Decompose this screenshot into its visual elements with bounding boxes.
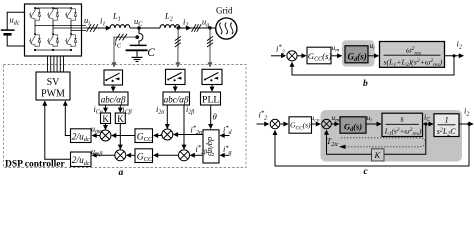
svg-text:iC: iC <box>115 38 122 50</box>
sampler S1 <box>104 70 123 85</box>
svg-text:s2L2C: s2L2C <box>437 127 456 138</box>
feedback wire (b) <box>292 56 454 75</box>
wire 2/udc1 to svpwm <box>65 102 70 136</box>
svg-text:ug: ug <box>202 17 209 29</box>
outer feedback (c) <box>275 124 469 166</box>
Gcc block a2 <box>135 149 153 163</box>
Gcc(s) block c <box>289 117 312 133</box>
svg-text:C: C <box>147 47 155 59</box>
sum junction 2c <box>322 119 332 129</box>
wire: inverter output ui <box>86 27 110 29</box>
sum junction 1c <box>270 119 280 129</box>
svg-text:i2: i2 <box>464 106 469 118</box>
svg-text:L2: L2 <box>164 11 173 23</box>
inductor L1 <box>110 25 130 28</box>
gain K2 <box>115 113 125 124</box>
svg-text:dq/αβ: dq/αβ <box>206 137 215 157</box>
svg-text:PLL: PLL <box>202 95 219 106</box>
K feedback solid (c) <box>384 124 426 154</box>
svg-text:i*2α: i*2α <box>191 125 204 137</box>
abc/ab block 1 <box>99 92 128 105</box>
svg-text:Gd(s): Gd(s) <box>348 51 367 63</box>
ground <box>132 57 143 61</box>
svg-text:i*2: i*2 <box>259 110 268 122</box>
svg-text:a: a <box>119 168 124 175</box>
transistor Q2 <box>29 33 41 47</box>
svg-text:i2: i2 <box>457 39 462 51</box>
wire sampler1 to abc1 <box>112 85 114 91</box>
sampler S3 <box>202 69 222 84</box>
inductor L2 <box>160 25 180 28</box>
dotted transform path (c) <box>341 138 426 147</box>
sum junction 4a <box>179 150 190 161</box>
i2 measurement tap <box>177 28 179 67</box>
svg-text:b: b <box>363 79 368 89</box>
svg-text:ui: ui <box>84 15 90 27</box>
wire K to sum2c <box>327 131 372 155</box>
svg-text:abc/αβ: abc/αβ <box>101 94 126 104</box>
svg-text:c: c <box>364 167 369 175</box>
svg-text:abc/αβ: abc/αβ <box>164 94 189 104</box>
svg-text:K: K <box>117 114 124 124</box>
gate signal wires <box>48 56 64 72</box>
wire Gcc2 to sum2a <box>127 154 135 156</box>
transistor Q1 <box>29 7 41 21</box>
svg-text:K: K <box>102 114 109 124</box>
abc/ab block 2 <box>163 92 190 105</box>
node b out <box>452 54 455 57</box>
node i2 tap <box>177 26 180 29</box>
transistor Q3 <box>47 7 59 21</box>
wire sum to Gcc (b) <box>297 55 305 57</box>
svg-text:udc: udc <box>10 15 20 27</box>
wire out (c) <box>459 123 473 125</box>
wire Gd to plant (b) <box>368 55 378 57</box>
wire K2 to sum2a <box>119 124 121 149</box>
wire in (b) <box>271 55 285 57</box>
wire sum3a to Gcc1 <box>154 135 162 136</box>
wire sampler3 to PLL <box>211 85 213 91</box>
sum junction 2a <box>115 150 126 161</box>
wire sum1c to Gcc (c) <box>280 123 287 125</box>
plant block c2 <box>434 114 459 137</box>
wire 2/udc2 to svpwm <box>45 102 71 160</box>
sampler S2 <box>166 69 186 84</box>
wire Gcc1 to sum1a <box>112 135 135 137</box>
Gd(s) block c <box>340 117 366 133</box>
wire in (c) <box>257 123 269 125</box>
svg-text:i2β: i2β <box>186 105 194 116</box>
svg-text:umβ: umβ <box>91 147 102 158</box>
sum junction 1a <box>100 130 111 141</box>
svg-text:Grid: Grid <box>216 6 233 16</box>
svg-text:i1: i1 <box>100 16 105 28</box>
wire Gd to plant1 (c) <box>366 123 381 125</box>
SV PWM block <box>36 72 70 100</box>
wire i*d into dq <box>221 135 230 137</box>
node uC <box>137 26 140 29</box>
iC measurement tap <box>114 37 137 67</box>
wire sampler2 to abc2 <box>174 85 176 91</box>
Gd(s) halo <box>342 40 375 66</box>
svg-text:uC: uC <box>134 16 143 28</box>
wire dq out i2b* to sum4a <box>191 154 203 156</box>
wire plant1 to plant2 (c) <box>423 123 433 125</box>
svg-text:DSP controller: DSP controller <box>5 160 66 170</box>
slashes on grid line <box>192 24 202 32</box>
ug measurement tap <box>209 28 211 67</box>
svg-text:L1: L1 <box>112 11 121 23</box>
svg-text:SV: SV <box>47 77 61 88</box>
svg-text:Gd(s): Gd(s) <box>344 122 362 134</box>
Gcc(s) block b <box>307 47 331 64</box>
dc source udc <box>1 12 25 46</box>
Gcc block a1 <box>135 129 153 143</box>
wire i*q into dq <box>221 154 230 156</box>
gain K1 <box>101 113 111 124</box>
gain 2/udc 1 <box>71 129 92 143</box>
sum junction 3a <box>162 129 173 140</box>
wires to K blocks <box>105 105 107 112</box>
svg-text:um: um <box>332 43 340 54</box>
transistor Q5 <box>65 7 77 21</box>
wire sum2a to 2/udc2 <box>93 154 116 156</box>
grid source G <box>216 18 237 39</box>
node iC (c) <box>424 122 427 125</box>
svg-text:θ: θ <box>213 111 218 121</box>
svg-text:1: 1 <box>445 114 449 124</box>
wire sum2c to Gd (c) <box>331 123 338 125</box>
Gd(s) block b <box>345 46 368 63</box>
bridge bottom rail junction dots <box>34 49 72 51</box>
node c out <box>467 122 470 125</box>
capacitor C <box>130 44 147 46</box>
svg-text:umα: umα <box>91 124 103 135</box>
transistor Q6 <box>65 33 77 47</box>
wire i2b down to sum4a <box>183 105 185 149</box>
gain K (c) <box>372 149 385 161</box>
wire Gcc to sum2c <box>312 123 321 125</box>
wire to grid <box>180 27 190 29</box>
svg-text:ui: ui <box>370 41 376 52</box>
plant block b <box>380 42 445 68</box>
svg-text:i2: i2 <box>183 17 188 29</box>
dq/ab block <box>203 130 219 163</box>
sum junction b <box>287 51 297 61</box>
wire theta <box>210 105 212 128</box>
gain 2/udc 2 <box>71 152 92 167</box>
node ug <box>208 26 211 29</box>
wire Gcc to Gd (b) <box>331 55 341 57</box>
gray region c <box>321 110 463 162</box>
capacitor branch with current sensor <box>139 28 143 45</box>
wire K1 to sum1a <box>105 124 107 130</box>
wire <box>130 27 160 29</box>
svg-text:i2α: i2α <box>156 105 165 116</box>
bridge dc rails, legs and phase output wires <box>35 8 86 50</box>
svg-text:i*d: i*d <box>223 125 233 137</box>
wire sum4a to Gcc2 <box>154 154 179 156</box>
wire i2a down to sum3a <box>166 105 168 128</box>
inverter bridge U1 <box>25 4 82 56</box>
3-phase slashes on ui line <box>87 24 99 32</box>
svg-text:i*2: i*2 <box>276 44 285 56</box>
PLL block <box>201 92 221 105</box>
wire out (b) <box>445 55 464 57</box>
plant block c1 <box>382 113 423 136</box>
transistor Q4 <box>47 33 59 47</box>
wire dq out i2a* to sum3a <box>174 134 203 136</box>
svg-text:PWM: PWM <box>41 89 65 100</box>
wire sum1a to 2/udc1 <box>93 135 101 137</box>
svg-text:i*q: i*q <box>223 144 232 156</box>
